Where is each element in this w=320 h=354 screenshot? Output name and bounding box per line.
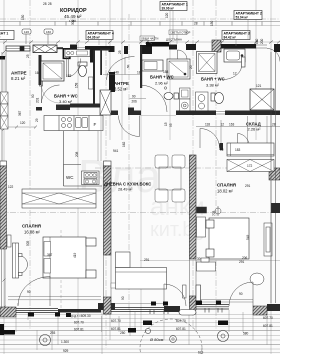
- WC mid enclosure: [64, 165, 103, 187]
- sofa living apt1: [116, 252, 167, 289]
- right apartment separating wall hatched: [190, 155, 197, 310]
- vertical wall left apt entry: [109, 46, 115, 52]
- svg-text:367: 367: [18, 110, 22, 116]
- thick wall band: [146, 42, 169, 47]
- svg-text:АПАРТАМЕНТ 1: АПАРТАМЕНТ 1: [0, 32, 8, 36]
- svg-text:158: 158: [163, 70, 169, 74]
- wide wardrobe with X (left living): [22, 189, 96, 208]
- watermark: [78, 150, 205, 241]
- bottom strip vertical ticks: [16, 308, 267, 354]
- antre/bath wall vertical: [39, 55, 42, 85]
- bottom window right: [196, 305, 229, 310]
- dining table set apt1: [155, 155, 185, 202]
- svg-text:15: 15: [164, 122, 168, 126]
- svg-text:607.70: 607.70: [263, 316, 273, 320]
- label apt2: [234, 11, 262, 20]
- svg-text:95: 95: [169, 123, 173, 127]
- svg-text:2.96 м²: 2.96 м²: [155, 81, 169, 86]
- svg-text:208: 208: [75, 151, 79, 157]
- svg-text:293: 293: [50, 331, 56, 335]
- svg-text:25: 25: [118, 50, 122, 54]
- svg-text:291: 291: [245, 184, 251, 188]
- svg-text:549: 549: [246, 234, 250, 240]
- svg-text:623: 623: [198, 351, 204, 354]
- bedroom3 left shelf: [197, 207, 207, 237]
- bottom window mid: [110, 308, 164, 312]
- svg-text:941: 941: [113, 149, 119, 153]
- sink double: [76, 118, 88, 128]
- ticks on y127 line: [3, 126, 37, 129]
- svg-text:Ø 80см: Ø 80см: [150, 337, 164, 342]
- svg-text:130: 130: [220, 322, 226, 326]
- svg-text:183: 183: [235, 148, 241, 152]
- label boxes: [0, 2, 262, 45]
- axis marker circle: [215, 206, 221, 216]
- svg-text:28: 28: [43, 2, 47, 6]
- svg-text:607.70: 607.70: [111, 319, 121, 323]
- small circle marker: [145, 328, 150, 333]
- bottom wall: left corner hatch: [0, 307, 16, 317]
- svg-text:28.49 м²: 28.49 м²: [118, 188, 133, 192]
- svg-text:122: 122: [8, 185, 14, 189]
- desk bottom left bed3: [197, 258, 216, 271]
- svg-text:53.04 м²: 53.04 м²: [236, 16, 248, 20]
- tick pairs bottom band: [150, 308, 222, 314]
- label apt cut left: [0, 31, 14, 40]
- left exterior wall hatched: [0, 166, 7, 249]
- hallway door gap in band: [216, 110, 225, 116]
- door arc antre apt1: [107, 57, 135, 81]
- svg-text:419: 419: [73, 252, 77, 258]
- bottom dimension strip lines: [0, 315, 280, 353]
- column bubble bottom right: [218, 331, 229, 342]
- column bubble bottom left: [40, 335, 51, 346]
- svg-text:30: 30: [197, 257, 201, 261]
- svg-text:206: 206: [242, 256, 248, 260]
- svg-text:90: 90: [239, 292, 243, 296]
- svg-text:126: 126: [24, 30, 29, 34]
- right edge hatch pier: [269, 168, 280, 180]
- dashed circle detail bottom center: [140, 319, 202, 354]
- left wardrobe column: [1, 92, 9, 129]
- svg-text:БАНЯ + WC: БАНЯ + WC: [150, 75, 174, 80]
- svg-text:291: 291: [144, 258, 150, 262]
- svg-text:90: 90: [121, 296, 125, 300]
- wall stub: [147, 47, 152, 55]
- svg-text:150: 150: [210, 20, 214, 26]
- radiator on wall: [196, 285, 201, 303]
- svg-text:171: 171: [145, 322, 151, 326]
- svg-text:162: 162: [122, 141, 126, 147]
- chair bottom right: [250, 273, 264, 285]
- svg-text:163: 163: [229, 123, 235, 127]
- bedroom3 door arc 1: [200, 129, 220, 149]
- toilet bath1: [78, 62, 87, 77]
- niche wall: [100, 49, 102, 75]
- bedroom3 wardrobe: [227, 143, 274, 156]
- apt1 toilet: [164, 93, 179, 100]
- apt4 entry door leaf: [67, 57, 81, 77]
- label apt4: [86, 31, 114, 40]
- corridor threshold ticks: [20, 22, 262, 26]
- bottom window left: [16, 309, 58, 313]
- kitchen wall horizontal: [36, 107, 42, 111]
- bottom right corner: [267, 304, 280, 311]
- capsule table mark: [179, 310, 196, 316]
- svg-text:3.38 м²: 3.38 м²: [206, 83, 220, 88]
- svg-text:300: 300: [71, 19, 75, 25]
- tag chip 1: [22, 29, 31, 44]
- left wall window lower: [2, 249, 6, 307]
- svg-text:БАНЯ + WC: БАНЯ + WC: [201, 77, 225, 82]
- wall block: [70, 45, 77, 52]
- kitchen box icons mid: [82, 171, 100, 185]
- svg-text:607.81: 607.81: [74, 328, 84, 332]
- wall under bath3: [176, 111, 280, 116]
- apt3 X wardrobe block: [250, 89, 274, 110]
- bedroom3 mirror right: [264, 223, 272, 256]
- svg-text:16: 16: [35, 71, 39, 75]
- svg-text:90: 90: [31, 94, 35, 98]
- bedroom3 door arc 2: [238, 134, 251, 150]
- apt1 shower: [167, 59, 190, 79]
- svg-text:СПАЛНЯ: СПАЛНЯ: [217, 183, 236, 188]
- svg-text:121: 121: [256, 84, 262, 88]
- apt3 washer sink counter: [196, 92, 209, 112]
- svg-text:172: 172: [247, 164, 253, 168]
- label apt3: [222, 31, 250, 40]
- wall band right: [221, 44, 256, 49]
- balcony edge lines left: [8, 297, 164, 304]
- svg-text:607.70: 607.70: [176, 319, 186, 323]
- bedroom3 bed: [206, 218, 249, 259]
- svg-text:250: 250: [120, 331, 126, 335]
- apt1 bath door arc: [140, 85, 167, 112]
- svg-text:84.42 м²: 84.42 м²: [224, 36, 236, 40]
- svg-text:БАНЯ + WC: БАНЯ + WC: [54, 94, 78, 99]
- cabinet in antre apt4: [65, 50, 90, 57]
- antre radiator: [40, 72, 43, 86]
- left exterior wall double line: [2, 52, 6, 179]
- wall block antre right: [90, 50, 93, 63]
- washing machine stack bath2: [180, 88, 191, 112]
- door arc living room entry: [119, 116, 140, 137]
- svg-text:3.52 м²: 3.52 м²: [114, 87, 128, 92]
- svg-text:3.40 м²: 3.40 м²: [59, 99, 73, 104]
- X tall cabinet near kitchen: [100, 90, 111, 115]
- svg-text:367: 367: [47, 253, 53, 257]
- apt3 vanity: [224, 49, 245, 62]
- svg-text:206: 206: [132, 100, 138, 104]
- svg-text:1.300: 1.300: [61, 340, 69, 344]
- window mark chips: [151, 301, 221, 306]
- svg-text:607.81: 607.81: [263, 324, 273, 328]
- left exterior wall cap: [0, 161, 7, 166]
- apt1 bathroom vanity: [142, 60, 163, 71]
- bath3 door arc: [222, 67, 242, 80]
- right wall pier dark: [271, 203, 280, 213]
- svg-text:СПАЛНЯ: СПАЛНЯ: [22, 224, 41, 229]
- wall stub right door: [244, 145, 248, 150]
- svg-text:28: 28: [48, 2, 52, 6]
- svg-text:25: 25: [26, 54, 30, 58]
- bath1 dividing wall vertical: [93, 50, 95, 107]
- right exterior wall lines: [271, 52, 276, 303]
- bath2 left wall: [140, 46, 142, 88]
- door arc top right: [267, 49, 280, 62]
- bedroom3 balcony door arc: [229, 282, 253, 306]
- svg-text:580: 580: [243, 332, 249, 336]
- grid axis lines horizontal: [0, 19, 280, 261]
- label apt1 top: [160, 2, 188, 11]
- svg-text:90: 90: [27, 290, 31, 294]
- bottom sill dark: [58, 309, 101, 313]
- svg-text:929: 929: [63, 349, 69, 353]
- svg-text:2.26 м²: 2.26 м²: [248, 127, 262, 132]
- apt3 bathroom shower: [197, 52, 218, 74]
- bath3 door leaf bar: [242, 57, 246, 67]
- svg-text:12: 12: [221, 123, 225, 127]
- wall band to shaft: [186, 44, 196, 50]
- svg-text:160: 160: [46, 30, 51, 34]
- balcony door arc apt1: [164, 284, 186, 306]
- apt3 toilet: [211, 93, 224, 104]
- room labels: [11, 8, 261, 235]
- wall block top-left: [0, 56, 5, 60]
- svg-text:120: 120: [20, 121, 26, 125]
- kitchen-wc wall line: [63, 131, 65, 165]
- door gap line: [77, 47, 85, 49]
- wardrobe left of bed: [13, 243, 28, 278]
- svg-text:WC: WC: [66, 175, 74, 180]
- hallway dim line: [196, 116, 280, 150]
- svg-text:39.06 м²: 39.06 м²: [162, 7, 174, 11]
- svg-text:28: 28: [194, 22, 198, 26]
- shower cabin bath1: [41, 61, 64, 81]
- svg-text:АНТРЕ: АНТРЕ: [11, 71, 27, 76]
- svg-text:18.02 м²: 18.02 м²: [217, 189, 234, 194]
- svg-text:118: 118: [205, 123, 210, 127]
- svg-text:20: 20: [189, 65, 193, 69]
- tag chip 2: [44, 29, 53, 44]
- wall block: [124, 46, 128, 54]
- wall stub between doors: [220, 143, 224, 150]
- svg-text:607.81: 607.81: [176, 327, 186, 331]
- svg-text:201: 201: [36, 97, 40, 103]
- svg-text:50: 50: [126, 64, 130, 68]
- svg-text:12: 12: [220, 148, 224, 152]
- radiator bath1: [89, 77, 94, 89]
- wall band right of gap: [169, 45, 177, 50]
- bedroom3 X band: [227, 160, 274, 172]
- svg-text:28: 28: [272, 123, 276, 127]
- balcony door arc left: [18, 276, 50, 306]
- wall piece: [57, 47, 63, 49]
- antre 8.21 bath door arc: [42, 85, 60, 103]
- svg-text:64.36 м²: 64.36 м²: [88, 36, 100, 40]
- svg-text:12: 12: [233, 72, 237, 76]
- top wall band: X block left: [33, 45, 57, 53]
- svg-text:ОБЩИ ЧАСТИ: ОБЩИ ЧАСТИ: [141, 37, 159, 41]
- left radiator: [7, 235, 11, 247]
- svg-text:291: 291: [239, 260, 245, 264]
- svg-text:160: 160: [255, 38, 259, 44]
- svg-text:АНТРЕ: АНТРЕ: [114, 81, 129, 86]
- bath2 top door arc: [178, 50, 188, 60]
- svg-text:607.70: 607.70: [74, 321, 84, 325]
- hatched wall block top right: [212, 40, 221, 52]
- svg-text:ср.д.т.=609.30: ср.д.т.=609.30: [70, 314, 91, 318]
- ticks on left dim line: [3, 51, 6, 309]
- svg-text:505: 505: [26, 240, 30, 246]
- dimension ticks top line y42: [3, 41, 280, 44]
- central hatched wall: [98, 161, 116, 314]
- corridor wall apt1: [111, 111, 118, 116]
- top wall band: convector left: [6, 46, 30, 51]
- svg-text:120: 120: [165, 12, 169, 18]
- wall block: [140, 45, 147, 54]
- bottom strip numbers: [5, 310, 273, 353]
- bottom right hatch block: [253, 306, 267, 315]
- right corner block: [274, 44, 280, 52]
- kitchen counter: [44, 116, 103, 131]
- small box left: [140, 36, 159, 41]
- window gap: [256, 45, 267, 48]
- black chips bottom: [0, 313, 249, 336]
- wall band: [85, 46, 110, 51]
- label leader lines: [99, 11, 248, 47]
- svg-text:200: 200: [260, 38, 264, 44]
- svg-text:158: 158: [75, 82, 79, 88]
- svg-text:8.21 м²: 8.21 м²: [11, 76, 26, 81]
- wall corner dark: [63, 49, 70, 59]
- svg-text:140: 140: [114, 71, 120, 75]
- svg-text:58: 58: [5, 331, 9, 335]
- svg-text:16.88 м²: 16.88 м²: [24, 230, 41, 235]
- stove burners: [62, 118, 72, 128]
- radiator left of wall: [183, 285, 187, 298]
- bath1 door arc: [42, 85, 60, 103]
- svg-text:ДНЕВНА С КУХН.БОКС: ДНЕВНА С КУХН.БОКС: [104, 182, 151, 187]
- pier dark: [164, 306, 180, 312]
- bed left bedroom: [43, 237, 96, 278]
- svg-text:90: 90: [132, 95, 136, 99]
- small box right: [166, 30, 191, 42]
- svg-text:150: 150: [21, 14, 25, 20]
- svg-text:703: 703: [212, 210, 216, 216]
- svg-text:F: F: [94, 122, 97, 127]
- svg-text:ДОСТЪПНА: ДОСТЪПНА: [166, 38, 182, 42]
- svg-text:153: 153: [66, 74, 72, 78]
- svg-text:29: 29: [35, 118, 39, 122]
- floor drain: [164, 87, 166, 89]
